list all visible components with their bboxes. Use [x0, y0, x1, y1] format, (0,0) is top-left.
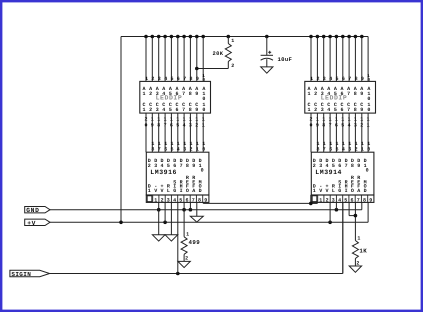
svg-text:0: 0 [366, 168, 369, 174]
wire SIGIN net [50, 202, 343, 273]
svg-text:4: 4 [164, 76, 167, 82]
ground under U1 pin8 [190, 216, 203, 222]
resistor R2 499 [181, 232, 200, 262]
svg-text:4: 4 [177, 146, 180, 152]
svg-text:5: 5 [170, 76, 173, 82]
svg-text:G: G [338, 188, 341, 194]
wire DS2 anode wires A1-A10 to bus [311, 37, 368, 82]
svg-text:2: 2 [161, 197, 164, 203]
svg-text:I: I [180, 188, 183, 194]
svg-text:9: 9 [195, 107, 198, 113]
wire left +V riser [120, 37, 122, 223]
svg-text:4: 4 [162, 107, 165, 113]
svg-text:I: I [345, 188, 348, 194]
svg-text:4: 4 [173, 197, 176, 203]
svg-text:1: 1 [307, 91, 310, 97]
svg-text:4: 4 [325, 163, 328, 169]
wire DS1 cathode wires C1-C10 to U1 [146, 113, 203, 152]
svg-text:499: 499 [189, 239, 201, 246]
svg-text:10uF: 10uF [278, 56, 293, 63]
svg-text:2: 2 [185, 256, 188, 262]
svg-text:2: 2 [231, 63, 234, 69]
wire GND bus [50, 202, 362, 209]
capacitor C1 10uF [261, 35, 293, 67]
svg-text:6: 6 [340, 107, 343, 113]
svg-text:1: 1 [307, 107, 310, 113]
svg-text:7: 7 [182, 91, 185, 97]
wire U2 pin5 SIG to SIGIN [342, 202, 344, 273]
junction dots +V bus [119, 221, 332, 225]
svg-text:20K: 20K [213, 51, 224, 57]
svg-text:9: 9 [195, 91, 198, 97]
wire DS1 anode wires A1-A10 to bus [146, 37, 203, 82]
svg-text:5: 5 [335, 76, 338, 82]
svg-text:7: 7 [158, 146, 161, 152]
svg-text:7: 7 [348, 76, 351, 82]
svg-text:3: 3 [154, 163, 157, 169]
svg-text:GND: GND [26, 207, 39, 214]
wire U1 pin8 REFA to ground [196, 202, 198, 216]
svg-text:7: 7 [180, 163, 183, 169]
svg-text:A: A [357, 188, 360, 194]
wire U1 pin6 RHI [183, 202, 185, 236]
svg-text:LM3914: LM3914 [315, 169, 342, 176]
svg-text:7: 7 [183, 76, 186, 82]
svg-text:6: 6 [342, 76, 345, 82]
svg-text:V: V [154, 188, 157, 194]
wire U2 pin7 REFO down to R3 [354, 202, 358, 240]
svg-text:7: 7 [347, 107, 350, 113]
connector +V [25, 219, 50, 227]
svg-text:8: 8 [189, 91, 192, 97]
svg-text:2: 2 [314, 107, 317, 113]
svg-text:+V: +V [27, 220, 36, 227]
svg-text:7: 7 [192, 197, 195, 203]
wire U2 pin6 RHI to pin7 [349, 202, 355, 215]
svg-text:2: 2 [189, 146, 192, 152]
wire U1 pin2 V- to ground [158, 202, 160, 234]
svg-text:D: D [199, 188, 202, 194]
wire +V bus [50, 202, 368, 222]
svg-text:3: 3 [183, 146, 186, 152]
svg-text:4: 4 [160, 163, 163, 169]
svg-text:8: 8 [186, 163, 189, 169]
svg-text:4: 4 [329, 76, 332, 82]
svg-text:8: 8 [151, 146, 154, 152]
svg-text:0: 0 [201, 168, 204, 174]
svg-text:9: 9 [196, 76, 199, 82]
svg-text:4: 4 [342, 146, 345, 152]
junction dots DS1 anode bus [144, 35, 205, 39]
svg-text:1: 1 [142, 91, 145, 97]
svg-text:2: 2 [149, 91, 152, 97]
svg-text:5: 5 [335, 146, 338, 152]
svg-text:4: 4 [338, 197, 341, 203]
LED bargraph array DS2 (LEDDIP) [305, 74, 376, 128]
wire U1 pin7 REFO to GND [189, 202, 191, 209]
svg-text:6: 6 [173, 163, 176, 169]
svg-text:LEDDIP: LEDDIP [156, 95, 183, 102]
svg-text:7: 7 [347, 91, 350, 97]
resistor R3 1K [352, 235, 367, 266]
svg-text:V: V [325, 188, 328, 194]
svg-text:L: L [167, 188, 170, 194]
svg-text:8: 8 [189, 76, 192, 82]
wire DS2 cathode wires C1-C10 to U2 [311, 113, 368, 152]
svg-text:1: 1 [142, 107, 145, 113]
svg-text:3: 3 [319, 163, 322, 169]
svg-text:9: 9 [361, 76, 364, 82]
svg-text:0: 0 [202, 78, 205, 83]
ground twin symbols under U1 [152, 235, 177, 241]
svg-text:1: 1 [319, 197, 322, 203]
svg-text:LEDDIP: LEDDIP [321, 95, 348, 102]
svg-text:6: 6 [164, 146, 167, 152]
svg-text:8: 8 [354, 91, 357, 97]
svg-text:SIGIN: SIGIN [11, 271, 31, 278]
svg-text:0: 0 [202, 146, 205, 152]
svg-text:1: 1 [310, 76, 313, 82]
svg-text:3: 3 [348, 146, 351, 152]
svg-text:5: 5 [332, 163, 335, 169]
svg-text:8: 8 [189, 107, 192, 113]
svg-text:1K: 1K [359, 248, 367, 255]
svg-text:2: 2 [148, 163, 151, 169]
svg-text:8: 8 [363, 197, 366, 203]
svg-text:2: 2 [314, 91, 317, 97]
wire U1 pin4 RLO to ground [170, 202, 172, 234]
svg-text:7: 7 [345, 163, 348, 169]
svg-text:6: 6 [329, 146, 332, 152]
svg-text:1: 1 [145, 76, 148, 82]
svg-text:1: 1 [154, 197, 157, 203]
svg-text:3: 3 [156, 107, 159, 113]
svg-text:1: 1 [357, 235, 360, 241]
svg-text:3: 3 [321, 107, 324, 113]
svg-text:2: 2 [355, 146, 358, 152]
svg-text:6: 6 [350, 197, 353, 203]
svg-text:3: 3 [332, 197, 335, 203]
svg-text:3: 3 [167, 197, 170, 203]
svg-text:A: A [192, 188, 195, 194]
svg-text:9: 9 [360, 91, 363, 97]
svg-text:7: 7 [323, 146, 326, 152]
svg-text:8: 8 [354, 107, 357, 113]
svg-text:5: 5 [169, 107, 172, 113]
svg-text:8: 8 [351, 163, 354, 169]
LED bargraph array DS1 (LEDDIP) [140, 74, 211, 128]
svg-text:5: 5 [167, 163, 170, 169]
svg-text:7: 7 [182, 107, 185, 113]
svg-text:9: 9 [360, 107, 363, 113]
svg-text:L: L [332, 188, 335, 194]
svg-text:1: 1 [313, 188, 316, 194]
svg-text:3: 3 [323, 76, 326, 82]
wire U2 pin4 RLO to GND [335, 202, 337, 209]
svg-text:9: 9 [357, 163, 360, 169]
svg-text:8: 8 [198, 197, 201, 203]
svg-text:2: 2 [313, 163, 316, 169]
svg-text:5: 5 [179, 197, 182, 203]
connector SIGIN [10, 270, 50, 278]
svg-text:1: 1 [231, 38, 234, 44]
svg-text:6: 6 [175, 107, 178, 113]
svg-text:8: 8 [355, 76, 358, 82]
svg-text:2: 2 [149, 107, 152, 113]
wire U1 pin3 V+ to +V [164, 202, 166, 222]
junction dots DS2 anode bus [309, 35, 363, 39]
svg-text:V: V [319, 188, 322, 194]
svg-text:1: 1 [361, 146, 364, 152]
svg-text:6: 6 [177, 76, 180, 82]
svg-text:1: 1 [148, 188, 151, 194]
svg-text:5: 5 [334, 107, 337, 113]
ground under C1 [261, 67, 273, 73]
svg-text:0: 0 [367, 107, 370, 113]
junction dots GND bus [157, 208, 338, 212]
wire U2 pin3 V+ to +V [329, 202, 331, 222]
op-amp/driver IC U1 LM3916 [146, 141, 209, 203]
svg-text:7: 7 [357, 197, 360, 203]
svg-text:2: 2 [316, 76, 319, 82]
svg-text:9: 9 [204, 197, 207, 203]
junction dot SIGIN at U1 pin5 [176, 272, 180, 276]
op-amp/driver IC U2 LM3914 [311, 141, 374, 203]
svg-text:6: 6 [338, 163, 341, 169]
svg-text:9: 9 [192, 163, 195, 169]
ground under R3 [349, 266, 361, 272]
svg-text:G: G [173, 188, 176, 194]
svg-text:4: 4 [327, 107, 330, 113]
svg-text:O: O [351, 188, 354, 194]
svg-text:2: 2 [151, 76, 154, 82]
wire U1 pin9 MODE to U2 pin1 D1 [203, 195, 317, 205]
ground under R2 [178, 261, 190, 267]
svg-text:5: 5 [170, 146, 173, 152]
svg-text:O: O [186, 188, 189, 194]
svg-text:LM3916: LM3916 [150, 169, 177, 176]
svg-text:0: 0 [367, 78, 370, 83]
svg-text:0: 0 [367, 146, 370, 152]
svg-text:1: 1 [186, 232, 189, 238]
svg-text:2: 2 [326, 197, 329, 203]
svg-text:3: 3 [158, 76, 161, 82]
resistor R1 20K [195, 35, 234, 71]
connector GND [25, 207, 50, 215]
wire +V LED anode bus [121, 36, 368, 38]
svg-text:5: 5 [344, 197, 347, 203]
svg-text:6: 6 [185, 197, 188, 203]
svg-text:1: 1 [196, 146, 199, 152]
svg-text:8: 8 [316, 146, 319, 152]
svg-text:0: 0 [202, 107, 205, 113]
svg-text:D: D [364, 188, 367, 194]
svg-text:9: 9 [369, 197, 372, 203]
svg-text:V: V [160, 188, 163, 194]
wire U1 pin5 SIG to SIGIN [177, 202, 179, 273]
